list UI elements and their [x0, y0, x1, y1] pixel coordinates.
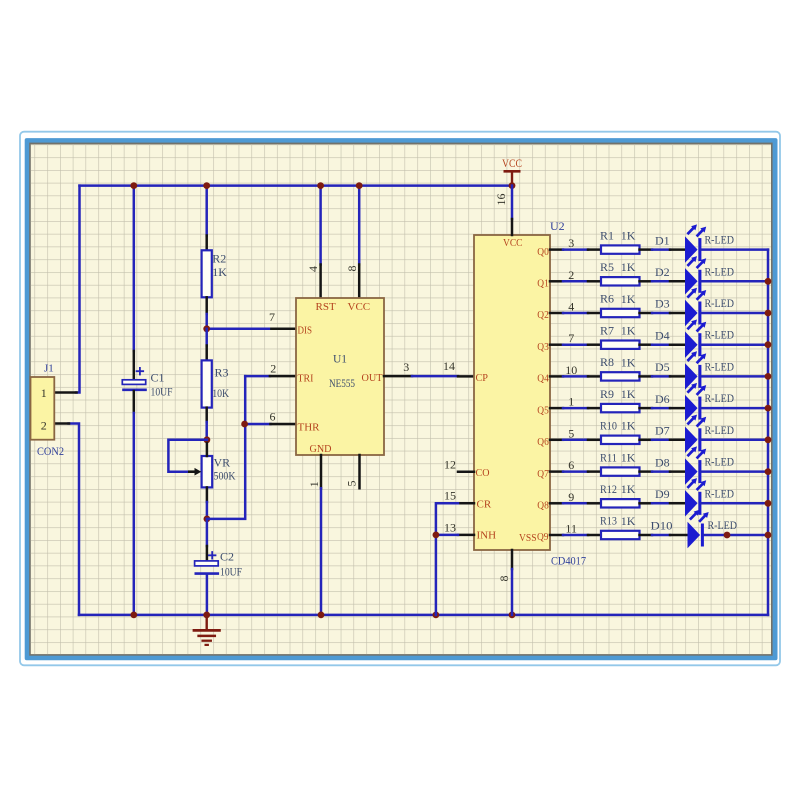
junction CR/INH	[433, 532, 440, 539]
wire Q1 to R5	[550, 280, 601, 283]
svg-text:D10: D10	[651, 519, 673, 533]
wire INH to ground rail	[436, 535, 474, 615]
svg-text:4: 4	[568, 300, 574, 314]
wire R7 to D4	[640, 343, 686, 346]
svg-text:1: 1	[41, 386, 47, 400]
junction rail/U2 vss	[509, 612, 516, 619]
wire C2 node to C2	[206, 519, 209, 561]
svg-text:D7: D7	[655, 424, 670, 438]
wire DIS	[207, 328, 296, 331]
svg-text:11: 11	[565, 522, 577, 536]
wire VCC top rail	[80, 184, 513, 187]
wire Q4 to R8	[550, 375, 601, 378]
junction rail/C1	[130, 182, 137, 189]
resistor R10	[601, 436, 640, 444]
svg-text:R9: R9	[600, 387, 614, 401]
svg-text:VR: VR	[214, 456, 231, 470]
resistor R6	[601, 309, 640, 317]
svg-text:1K: 1K	[621, 419, 636, 433]
junction bus	[765, 500, 772, 507]
wire R6 to D3	[640, 312, 686, 315]
junction rail/U1 gnd	[318, 612, 325, 619]
wire VR bottom to C2 node	[206, 487, 209, 519]
svg-text:R-LED: R-LED	[705, 296, 735, 310]
junction bus	[765, 468, 772, 475]
LED D5	[685, 351, 706, 389]
svg-text:R-LED: R-LED	[708, 518, 738, 532]
junction rail/J?	[130, 612, 137, 619]
junction bus	[765, 310, 772, 317]
ground	[194, 615, 219, 645]
svg-text:CR: CR	[477, 499, 492, 511]
svg-text:U1: U1	[333, 354, 347, 366]
wire Q6 to R10	[550, 439, 601, 442]
wire rail to R2	[205, 186, 208, 251]
svg-text:5: 5	[345, 481, 359, 487]
svg-text:Q6: Q6	[537, 436, 549, 448]
svg-text:1K: 1K	[621, 355, 636, 369]
wire rail to U1 pin8	[358, 186, 361, 298]
junction R2/R3/DIS	[203, 325, 210, 332]
wire DIS node to R3	[205, 329, 208, 361]
junction R3/VR/wiper	[204, 436, 211, 443]
svg-text:D6: D6	[655, 392, 670, 406]
svg-text:R10: R10	[600, 419, 617, 433]
junction rail/VCC	[509, 182, 516, 189]
LED D10	[688, 510, 709, 548]
svg-text:1K: 1K	[212, 265, 227, 279]
svg-text:OUT: OUT	[362, 372, 383, 384]
svg-text:U2: U2	[550, 219, 565, 233]
wire TRI/THR vertical	[207, 376, 245, 519]
svg-text:8: 8	[345, 266, 359, 272]
wire R9 to D6	[640, 407, 686, 410]
svg-text:R-LED: R-LED	[705, 328, 735, 342]
wire C2 to ground rail	[206, 575, 209, 615]
wire D4 to bus	[701, 343, 768, 346]
resistor R12	[601, 499, 640, 507]
wire ground bottom rail	[79, 614, 768, 617]
resistor R11	[601, 467, 640, 475]
IC U2 CD4017 box	[474, 235, 550, 550]
junction bus	[765, 278, 772, 285]
wire Q5 to R9	[550, 407, 601, 410]
svg-text:1: 1	[307, 481, 321, 487]
LED D3	[685, 288, 706, 326]
LED D7	[685, 415, 706, 453]
svg-text:6: 6	[270, 410, 276, 424]
svg-text:CP: CP	[476, 372, 489, 384]
svg-text:R13: R13	[600, 514, 617, 528]
svg-text:1K: 1K	[621, 260, 636, 274]
svg-text:5: 5	[568, 426, 574, 440]
wire rail to C1	[133, 186, 136, 380]
svg-text:Q0: Q0	[537, 246, 549, 258]
svg-text:R-LED: R-LED	[705, 455, 735, 469]
wire THR	[245, 423, 296, 426]
junction rail/INH	[433, 612, 440, 619]
svg-text:R-LED: R-LED	[705, 423, 735, 437]
svg-text:R5: R5	[600, 260, 614, 274]
wire D7 to bus	[701, 439, 768, 442]
wire Q8 to R12	[550, 502, 601, 505]
svg-text:R8: R8	[600, 355, 614, 369]
svg-text:7: 7	[568, 331, 574, 345]
wire R11 to D8	[640, 470, 686, 473]
svg-text:6: 6	[568, 458, 574, 472]
potentiometer VR	[188, 443, 212, 487]
svg-text:4: 4	[306, 266, 320, 272]
svg-text:DIS: DIS	[298, 325, 313, 337]
wire Q3 to R7	[550, 343, 601, 346]
svg-text:1K: 1K	[621, 451, 636, 465]
svg-text:Q2: Q2	[537, 309, 549, 321]
wire R2 to DIS node	[205, 297, 208, 329]
resistor R5	[601, 277, 640, 285]
capacitor C1	[122, 368, 145, 390]
wire D1 to bus	[701, 248, 768, 251]
wire R3 to VR	[205, 408, 208, 440]
wire wiper loop	[168, 440, 207, 472]
svg-text:CD4017: CD4017	[551, 554, 586, 568]
wire Q9 to R13	[550, 534, 601, 537]
svg-text:R7: R7	[600, 323, 614, 337]
wire D8 to bus	[701, 470, 768, 473]
svg-text:TRI: TRI	[298, 373, 314, 385]
svg-text:10K: 10K	[212, 386, 229, 400]
junction rail/pin4	[317, 182, 324, 189]
resistor R13	[601, 531, 640, 539]
LED D9	[685, 478, 706, 516]
svg-text:R11: R11	[600, 450, 617, 464]
wire J1 pin1 to rail	[54, 186, 79, 393]
svg-text:Q8: Q8	[537, 500, 549, 512]
svg-text:R1: R1	[600, 228, 614, 242]
LED D2	[685, 256, 706, 294]
wire R5 to D2	[640, 280, 686, 283]
svg-text:Q7: Q7	[537, 468, 549, 480]
pin 5 stub	[358, 455, 361, 488]
wire rail to U2 pin16	[511, 186, 514, 235]
svg-text:Q3: Q3	[537, 341, 549, 353]
wire R10 to D7	[640, 439, 686, 442]
svg-text:Q1: Q1	[537, 278, 549, 290]
svg-text:3: 3	[403, 360, 409, 374]
svg-text:R12: R12	[600, 482, 617, 496]
svg-text:NE555: NE555	[329, 378, 355, 390]
wire TRI	[245, 375, 296, 378]
resistor R7	[601, 341, 640, 349]
junction rail/pin8	[356, 182, 363, 189]
svg-text:C1: C1	[151, 371, 165, 385]
svg-text:R-LED: R-LED	[705, 391, 735, 405]
svg-text:D3: D3	[655, 297, 670, 311]
svg-text:R-LED: R-LED	[705, 233, 735, 247]
svg-text:J1: J1	[44, 363, 54, 375]
svg-text:C2: C2	[220, 550, 234, 564]
svg-text:CO: CO	[476, 467, 490, 479]
wire rail to U1 pin4	[319, 186, 322, 298]
wire D5 to bus	[701, 375, 768, 378]
svg-text:VCC: VCC	[348, 301, 371, 313]
svg-text:9: 9	[568, 490, 574, 504]
LED D4	[685, 320, 706, 358]
svg-text:Q4: Q4	[537, 373, 549, 385]
svg-text:RST: RST	[316, 301, 336, 313]
wire C1 to ground rail	[133, 391, 136, 615]
svg-text:8: 8	[497, 576, 511, 582]
svg-text:VCC: VCC	[502, 156, 522, 170]
svg-text:D1: D1	[655, 233, 670, 247]
wire D10 to bus	[704, 534, 768, 537]
LED D6	[685, 383, 706, 421]
svg-text:D5: D5	[655, 360, 670, 374]
junction bus	[765, 532, 772, 539]
wire D2 to bus	[701, 280, 768, 283]
svg-text:10: 10	[565, 363, 577, 377]
junction rail/R2	[203, 182, 210, 189]
svg-text:CON2: CON2	[37, 444, 64, 458]
connector J1	[31, 377, 55, 440]
wire Q0 to R1	[550, 248, 601, 251]
junction bus	[765, 405, 772, 412]
wire D6 to bus	[701, 407, 768, 410]
svg-text:THR: THR	[298, 422, 321, 434]
capacitor C2	[195, 552, 219, 574]
svg-text:D8: D8	[655, 455, 670, 469]
resistor R2	[202, 250, 212, 297]
wire R1 to D1	[640, 248, 686, 251]
svg-text:VCC: VCC	[503, 237, 523, 249]
junction VR/C2/THR	[204, 516, 211, 523]
svg-text:R-LED: R-LED	[705, 486, 735, 500]
svg-text:10UF: 10UF	[151, 385, 173, 399]
svg-text:R3: R3	[215, 366, 229, 380]
svg-text:500K: 500K	[214, 469, 236, 483]
svg-text:Q5: Q5	[537, 404, 549, 416]
wire CR to INH node	[436, 503, 474, 535]
svg-text:R6: R6	[600, 292, 614, 306]
wire Q2 to R6	[550, 312, 601, 315]
svg-text:1K: 1K	[621, 387, 636, 401]
resistor R3	[202, 360, 212, 407]
pin 12 CO stub	[458, 470, 474, 473]
power symbol VCC	[502, 156, 522, 186]
wire R12 to D9	[640, 502, 686, 505]
svg-text:Q9: Q9	[537, 531, 549, 543]
junction bus	[765, 341, 772, 348]
wire OUT to CP	[384, 375, 474, 378]
svg-text:R-LED: R-LED	[705, 264, 735, 278]
svg-text:12: 12	[444, 458, 456, 472]
svg-text:1K: 1K	[621, 482, 636, 496]
svg-text:1K: 1K	[621, 324, 636, 338]
wire U2 pin8 to rail	[511, 550, 514, 615]
svg-text:D9: D9	[655, 487, 670, 501]
junction D10 wire	[724, 532, 731, 539]
resistor R1	[601, 245, 640, 253]
svg-text:2: 2	[568, 268, 574, 282]
LED D1	[685, 224, 706, 262]
LED D8	[685, 446, 706, 484]
svg-text:16: 16	[494, 194, 508, 206]
wire R8 to D5	[640, 375, 686, 378]
wire R13 to D10	[640, 534, 688, 537]
op-amp U1 NE555 box	[296, 298, 384, 455]
svg-text:10UF: 10UF	[220, 565, 242, 579]
svg-text:1: 1	[568, 395, 574, 409]
junction rail/gnd symbol	[203, 612, 210, 619]
svg-text:D4: D4	[655, 328, 670, 342]
svg-text:3: 3	[568, 236, 574, 250]
resistor R8	[601, 372, 640, 380]
wire D9 to bus	[701, 502, 768, 505]
svg-text:INH: INH	[477, 530, 497, 542]
svg-text:2: 2	[270, 362, 276, 376]
wire U1 GND pin to rail	[320, 455, 323, 615]
junction THR	[241, 421, 248, 428]
svg-text:14: 14	[443, 359, 455, 373]
junction bus	[765, 436, 772, 443]
svg-text:R-LED: R-LED	[705, 359, 735, 373]
svg-text:13: 13	[444, 521, 456, 535]
svg-text:2: 2	[41, 419, 47, 433]
svg-text:1K: 1K	[621, 292, 636, 306]
svg-text:D2: D2	[655, 265, 670, 279]
svg-text:1K: 1K	[621, 514, 636, 528]
svg-text:VSS: VSS	[519, 532, 537, 544]
wire J1 pin2 to ground rail	[54, 424, 79, 615]
svg-text:1K: 1K	[621, 229, 636, 243]
wire D3 to bus	[701, 312, 768, 315]
svg-text:7: 7	[269, 310, 275, 324]
svg-text:R2: R2	[212, 251, 226, 265]
svg-text:GND: GND	[310, 443, 332, 455]
resistor R9	[601, 404, 640, 412]
junction bus	[765, 373, 772, 380]
wire LED cathode bus	[767, 250, 770, 615]
wire Q7 to R11	[550, 470, 601, 473]
svg-text:15: 15	[444, 489, 456, 503]
